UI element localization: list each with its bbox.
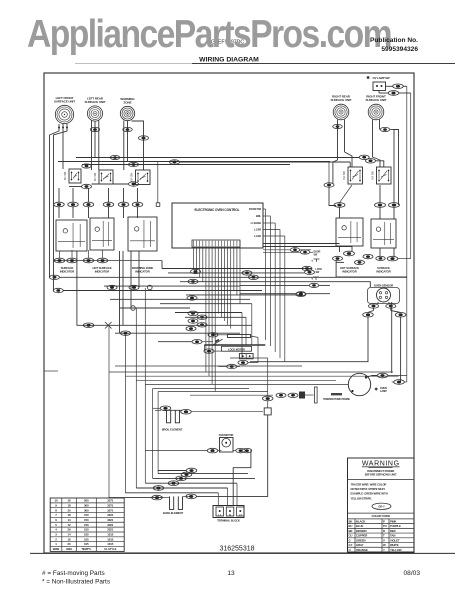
svg-text:BROWN: BROWN	[356, 529, 366, 533]
svg-text:7: 7	[55, 513, 57, 517]
svg-text:L1 BK: L1 BK	[254, 234, 261, 238]
svg-text:INDICATOR: INDICATOR	[95, 270, 109, 274]
svg-text:18: 18	[68, 513, 72, 517]
svg-text:INDICATOR: INDICATOR	[342, 270, 356, 274]
svg-text:PINK: PINK	[390, 519, 396, 523]
svg-text:T: T	[311, 278, 313, 281]
svg-text:3: 3	[55, 533, 57, 537]
svg-text:ORANGE: ORANGE	[356, 548, 368, 552]
svg-text:✱: ✱	[375, 387, 379, 392]
svg-text:COPPER: COPPER	[356, 534, 367, 538]
svg-text:VIOLET: VIOLET	[390, 538, 400, 542]
svg-text:INF SW: INF SW	[372, 171, 375, 180]
svg-text:3571: 3571	[107, 508, 114, 512]
svg-text:SURFACE UNIT: SURFACE UNIT	[331, 98, 352, 102]
svg-text:INDICATOR: INDICATOR	[376, 270, 390, 274]
svg-text:300: 300	[84, 503, 89, 507]
svg-text:4: 4	[55, 528, 57, 532]
svg-text:GREEN: GREEN	[356, 538, 366, 542]
svg-text:12: 12	[68, 523, 72, 527]
svg-text:COLOR CODE: COLOR CODE	[371, 514, 390, 518]
svg-text:INF SW: INF SW	[131, 172, 134, 181]
svg-text:BEFORE SERVICING UNIT.: BEFORE SERVICING UNIT.	[365, 472, 397, 476]
svg-text:1015: 1015	[107, 542, 114, 546]
svg-text:R: R	[383, 529, 385, 533]
svg-text:20: 20	[68, 542, 72, 546]
svg-text:L1 BR: L1 BR	[254, 228, 261, 232]
svg-text:BK: BK	[349, 519, 353, 523]
svg-text:WHITE: WHITE	[390, 543, 399, 547]
svg-text:16: 16	[68, 499, 72, 503]
svg-text:# = Fast-moving Parts: # = Fast-moving Parts	[42, 570, 105, 577]
svg-text:08/03: 08/03	[403, 570, 420, 577]
svg-text:W: W	[383, 543, 386, 547]
svg-text:5: 5	[55, 523, 57, 527]
svg-text:T: T	[311, 260, 313, 263]
svg-text:AWG: AWG	[66, 547, 72, 551]
svg-text:20: 20	[68, 528, 72, 532]
svg-text:* = Non-Illustrated Parts: * = Non-Illustrated Parts	[42, 579, 110, 586]
svg-text:SW: SW	[316, 271, 320, 274]
svg-text:6: 6	[55, 518, 57, 522]
svg-text:150: 150	[84, 513, 89, 517]
svg-text:8: 8	[55, 508, 57, 512]
svg-text:FAN MOTOR: FAN MOTOR	[219, 433, 234, 437]
svg-text:150: 150	[84, 518, 89, 522]
svg-text:WIRE: WIRE	[53, 547, 60, 551]
svg-text:OV LAMP SW: OV LAMP SW	[373, 76, 390, 80]
svg-text:WARNING: WARNING	[362, 461, 400, 468]
svg-text:1: 1	[55, 542, 57, 546]
svg-text:Y: Y	[383, 548, 385, 552]
svg-text:16: 16	[68, 537, 72, 541]
svg-text:105: 105	[84, 533, 89, 537]
svg-text:BU: BU	[349, 524, 353, 528]
svg-text:3321: 3321	[107, 513, 114, 517]
svg-text:150: 150	[84, 523, 89, 527]
svg-text:BLUE: BLUE	[356, 524, 363, 528]
svg-text:RED: RED	[390, 529, 396, 533]
svg-text:PURPLE: PURPLE	[390, 524, 401, 528]
svg-text:5995394326: 5995394326	[381, 46, 418, 53]
svg-text:GRAY: GRAY	[356, 543, 364, 547]
svg-text:BAKE ELEMENT: BAKE ELEMENT	[163, 511, 183, 515]
svg-text:ZONE: ZONE	[124, 100, 132, 104]
svg-text:316255318: 316255318	[219, 546, 254, 553]
svg-text:TEMP°C: TEMP°C	[81, 547, 91, 551]
svg-text:18: 18	[68, 503, 72, 507]
svg-text:P: P	[383, 519, 385, 523]
svg-text:GR-Y: GR-Y	[378, 505, 385, 509]
svg-text:DISCONNECT POWER: DISCONNECT POWER	[367, 469, 394, 473]
svg-text:14: 14	[68, 518, 72, 522]
svg-text:3321: 3321	[107, 518, 114, 522]
svg-text:200: 200	[84, 499, 89, 503]
svg-text:INF SW: INF SW	[94, 172, 97, 181]
svg-text:3571: 3571	[107, 503, 114, 507]
svg-text:SURFACE UNIT: SURFACE UNIT	[54, 99, 75, 103]
svg-text:INDICATOR: INDICATOR	[60, 270, 74, 274]
svg-text:NOTED FIRST, STRIPE NEXT.: NOTED FIRST, STRIPE NEXT.	[351, 487, 386, 491]
svg-text:Publication No.: Publication No.	[370, 37, 418, 44]
svg-text:YELLOW: YELLOW	[390, 548, 402, 552]
svg-text:INF SW: INF SW	[64, 171, 67, 180]
svg-text:CU: CU	[349, 534, 353, 538]
svg-text:ELECTRONIC OVEN CONTROL: ELECTRONIC OVEN CONTROL	[195, 208, 240, 212]
svg-text:SURFACE UNIT: SURFACE UNIT	[85, 100, 106, 104]
svg-text:SW: SW	[314, 254, 318, 257]
svg-text:GY: GY	[349, 543, 353, 547]
svg-text:3571: 3571	[107, 499, 114, 503]
svg-text:13: 13	[227, 570, 235, 577]
svg-text:BROIL ELEMENT: BROIL ELEMENT	[162, 428, 183, 432]
svg-text:BR: BR	[349, 529, 353, 533]
svg-text:1015: 1015	[107, 533, 114, 537]
svg-text:3321: 3321	[107, 528, 114, 532]
svg-text:UL STYLE: UL STYLE	[104, 547, 116, 551]
svg-text:BLACK: BLACK	[356, 519, 365, 523]
svg-text:TEMPERATURE PROBE: TEMPERATURE PROBE	[323, 398, 350, 401]
svg-text:L1 BAKE: L1 BAKE	[251, 221, 262, 225]
svg-text:14: 14	[68, 533, 72, 537]
svg-text:300: 300	[84, 508, 89, 512]
svg-text:INDICATOR: INDICATOR	[135, 270, 149, 274]
svg-text:G: G	[349, 538, 351, 542]
svg-text:WIRING DIAGRAM: WIRING DIAGRAM	[199, 57, 259, 64]
svg-text:AppliancePartsPros.com: AppliancePartsPros.com	[27, 13, 391, 56]
svg-text:SURFACE UNIT: SURFACE UNIT	[366, 98, 387, 102]
svg-text:V: V	[383, 538, 385, 542]
svg-text:150: 150	[84, 528, 89, 532]
svg-text:O: O	[349, 548, 352, 552]
svg-text:LAMP: LAMP	[380, 390, 387, 393]
svg-text:10: 10	[54, 499, 58, 503]
svg-text:TRACER WIRE: WIRE COLOR: TRACER WIRE: WIRE COLOR	[351, 483, 387, 487]
svg-text:DOOR SW: DOOR SW	[249, 207, 262, 211]
svg-text:✱: ✱	[366, 75, 370, 80]
svg-text:PU: PU	[383, 524, 387, 528]
svg-text:9: 9	[55, 503, 57, 507]
svg-text:EXAMPLE: GREEN WIRE WITH: EXAMPLE: GREEN WIRE WITH	[351, 492, 388, 496]
svg-text:TERMINAL BLOCK: TERMINAL BLOCK	[217, 519, 240, 523]
svg-text:1015: 1015	[107, 537, 114, 541]
svg-text:INF SW: INF SW	[343, 171, 346, 180]
svg-text:TAN: TAN	[390, 534, 395, 538]
svg-text:105: 105	[84, 542, 89, 546]
svg-text:LOCK MOTOR: LOCK MOTOR	[228, 347, 245, 351]
svg-text:T: T	[383, 534, 385, 538]
svg-text:3321: 3321	[107, 523, 114, 527]
svg-text:OVEN SENSOR: OVEN SENSOR	[374, 284, 393, 288]
svg-text:2: 2	[55, 537, 57, 541]
svg-text:105: 105	[84, 537, 89, 541]
svg-text:20: 20	[68, 508, 72, 512]
svg-text:YELLOW STRIPE.: YELLOW STRIPE.	[351, 496, 373, 500]
svg-text:BRL: BRL	[256, 214, 262, 218]
